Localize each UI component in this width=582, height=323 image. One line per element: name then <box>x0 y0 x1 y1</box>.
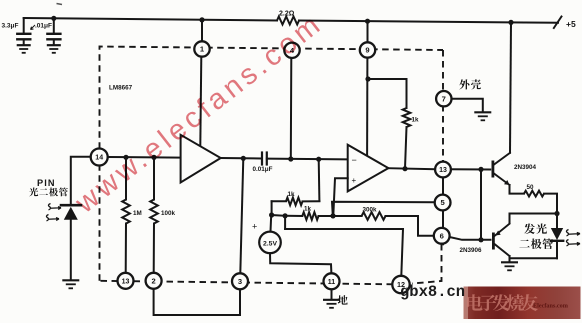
capacitor C2 .01uF <box>51 16 56 21</box>
ground (C2) <box>47 44 61 46</box>
wire base tie Q1-Q2 <box>478 167 483 172</box>
svg-text:2N3906: 2N3906 <box>460 247 483 254</box>
ground (node7 case) <box>474 111 491 113</box>
light arrows into D1 <box>48 204 61 211</box>
svg-text:+: + <box>352 176 357 185</box>
node pin 2 <box>146 273 162 289</box>
stray scan tick <box>57 4 63 5</box>
wire junction to Q2 emitter <box>510 214 558 223</box>
resistor R5 1k <box>272 200 286 202</box>
resistor R6 1k <box>302 212 318 220</box>
svg-text:7: 7 <box>442 94 446 103</box>
wire node13 to Q1 base <box>451 168 490 170</box>
svg-text:6: 6 <box>440 232 444 241</box>
node pin 7 <box>436 91 451 106</box>
resistor R4 1k feedback A2 <box>365 76 370 81</box>
IC U1 LM8667 dashed outline <box>100 47 444 285</box>
wire R8 to LED junction <box>544 194 557 214</box>
svg-text:2.2Ω: 2.2Ω <box>279 11 295 18</box>
node pin 11 <box>324 273 340 289</box>
wire node14 to photodiode <box>71 157 91 204</box>
wire minus input to R5 <box>318 159 321 201</box>
svg-text:13: 13 <box>439 167 447 174</box>
light arrows out of D2 <box>566 230 580 237</box>
node pin 9 <box>360 42 375 57</box>
wire 2.5V to node11 <box>270 253 331 273</box>
svg-text:.01μF: .01μF <box>35 23 52 30</box>
svg-text:PIN: PIN <box>37 178 56 188</box>
node13R-5-6 solid connectors <box>442 163 444 244</box>
wire C3 to A2 inverting input <box>267 158 348 161</box>
node pin 13 <box>118 273 134 289</box>
label guang-er-ji-guan (photodiode CN) <box>29 188 38 197</box>
wire Q1 collector to rail <box>508 20 513 25</box>
wire node1 to op-amp A1 <box>200 57 201 147</box>
svg-text:3.3μF: 3.3μF <box>2 23 19 30</box>
wire node9 to rail <box>365 19 370 24</box>
svg-text:300k: 300k <box>363 207 378 214</box>
wire node7 to ground <box>452 99 483 112</box>
wire node2-node3 bottom loop <box>154 289 240 315</box>
wire node9 to op-amp A2 <box>366 58 368 157</box>
wire node5 to R6 junction <box>332 202 435 216</box>
svg-text:2.5V: 2.5V <box>263 240 277 247</box>
label di (ground CN) <box>338 295 348 305</box>
transistor Q1 2N3904 <box>492 161 495 178</box>
node pin 6 <box>434 228 450 244</box>
svg-text:1k: 1k <box>304 206 312 213</box>
wire junction to node12 <box>285 229 403 276</box>
wire A2 output to node13 <box>388 168 435 169</box>
wire node1 to rail <box>199 17 204 22</box>
wire A1 output to node3 <box>240 158 243 273</box>
wire LED return <box>510 257 558 259</box>
wire junction column 2.5V <box>271 201 273 215</box>
voltage source 2.5V <box>259 232 281 254</box>
svg-text:LM8667: LM8667 <box>109 85 133 92</box>
node pin 4 <box>284 43 299 58</box>
svg-text:2N3904: 2N3904 <box>514 164 537 171</box>
svg-text:50: 50 <box>527 184 535 191</box>
node pin 12 <box>392 276 409 293</box>
ground (C1) <box>17 44 31 46</box>
+5 supply terminal <box>554 17 562 29</box>
svg-text:13: 13 <box>122 278 130 285</box>
wire Q1 emitter to R8 <box>510 185 525 194</box>
resistor R7 300k <box>319 215 362 217</box>
svg-text:11: 11 <box>328 279 336 286</box>
ground (Q2) <box>501 261 518 263</box>
node pin 5 <box>435 195 451 211</box>
wire R7 to node6 <box>386 216 434 236</box>
photodiode D1 PIN <box>61 204 81 207</box>
node pin 1 <box>194 41 209 56</box>
resistor R1 2.2ohm <box>277 17 299 25</box>
svg-text:gbx8.cn: gbx8.cn <box>400 283 465 301</box>
wire input node to op-amp A1 <box>108 156 181 159</box>
LED D2 <box>556 214 558 229</box>
resistor R3 100k <box>153 157 155 199</box>
ground (photodiode) <box>62 279 79 281</box>
svg-text:−: − <box>352 155 357 165</box>
node pin 13 <box>435 162 451 178</box>
svg-text:+: + <box>252 222 257 232</box>
svg-text:+5: +5 <box>566 19 576 29</box>
wire node4 to signal <box>290 58 293 159</box>
svg-text:3: 3 <box>238 277 242 286</box>
svg-text:14: 14 <box>95 155 103 162</box>
ground (node11) <box>323 299 340 301</box>
wire A2 plus input <box>333 178 347 215</box>
label er-ji-guan (LED CN line2) <box>519 240 529 248</box>
node pin 3 <box>232 273 248 289</box>
capacitor C3 0.01uF <box>261 153 263 165</box>
svg-text:Elecfans.com: Elecfans.com <box>533 303 569 310</box>
wire node11 to ground <box>331 289 333 299</box>
transistor Q2 2N3906 <box>492 233 495 250</box>
wire +5V top rail <box>24 18 277 21</box>
watermark banner elecfans <box>464 287 581 320</box>
svg-text:1k: 1k <box>288 191 296 198</box>
svg-text:0.01μF: 0.01μF <box>253 166 273 173</box>
wire photodiode to ground <box>70 220 72 280</box>
node pin 14 <box>91 149 108 166</box>
wire node6 to Q2 base <box>449 237 490 240</box>
svg-text:100k: 100k <box>161 210 176 217</box>
label fa-guang (LED CN line1) <box>524 223 535 234</box>
wire 2.5V top lead <box>270 215 273 232</box>
capacitor C1 3.3uF <box>23 18 25 33</box>
wire A1 output <box>221 157 261 160</box>
wire Q2 collector to ground <box>509 256 511 262</box>
op-amp A2 <box>348 145 389 192</box>
svg-text:9: 9 <box>365 46 369 55</box>
resistor R8 50 <box>524 191 544 197</box>
resistor R2 1M <box>125 157 127 199</box>
label wai-ke (case CN) <box>459 79 469 89</box>
svg-text:1k: 1k <box>412 117 420 124</box>
op-amp A1 <box>181 135 221 183</box>
svg-text:2: 2 <box>151 277 155 286</box>
svg-text:1M: 1M <box>133 210 142 217</box>
